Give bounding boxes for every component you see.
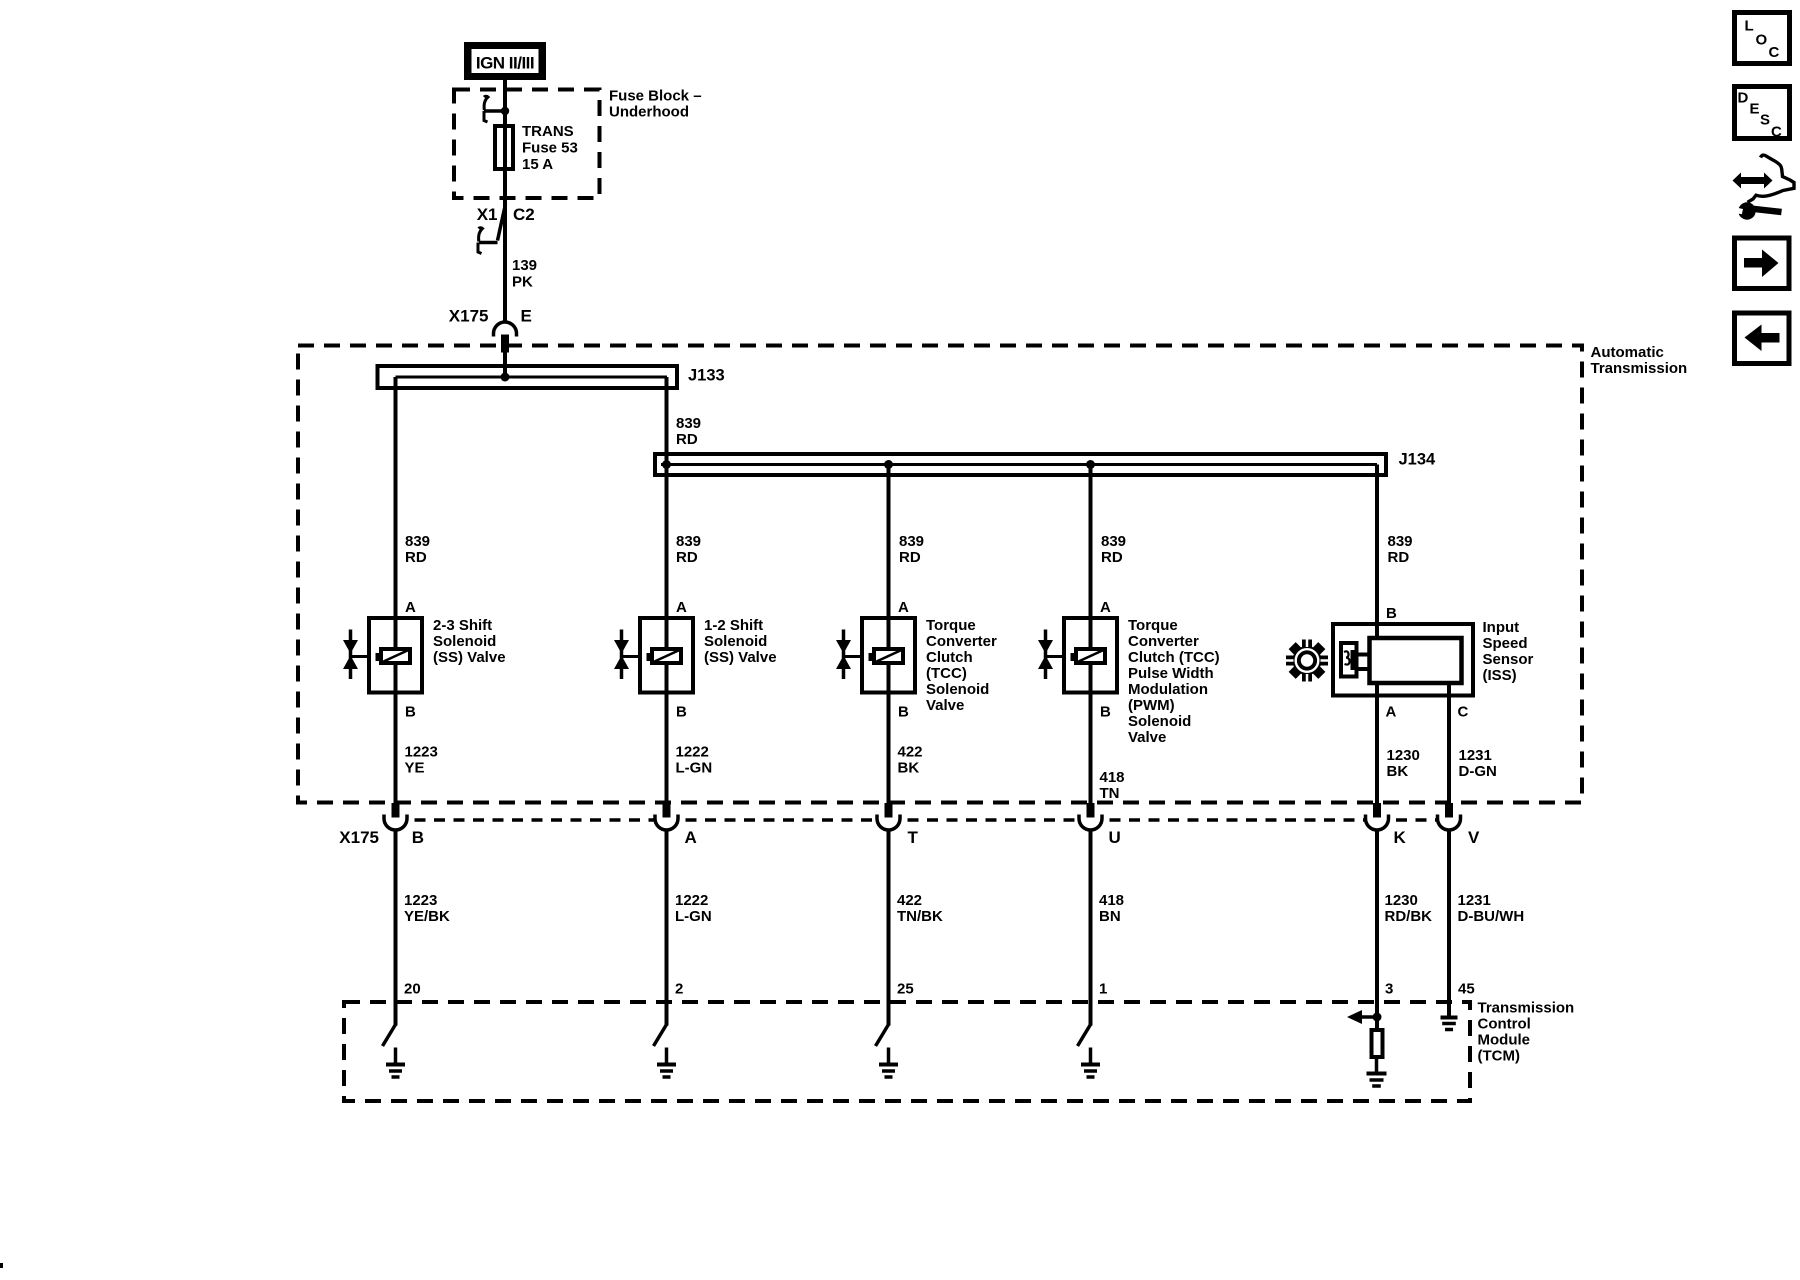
component label [704, 617, 777, 666]
wire 422 TN/BK: X175 T to TCM [889, 830, 943, 1026]
valve symbol [1038, 630, 1065, 680]
connector X1 C2 [477, 204, 535, 254]
svg-text:Module: Module [1478, 1032, 1531, 1049]
resistor in TCM [1372, 1030, 1383, 1057]
svg-text:Clutch: Clutch [926, 649, 973, 666]
svg-text:U: U [1109, 828, 1121, 847]
svg-text:2: 2 [675, 981, 683, 998]
svg-text:Solenoid: Solenoid [704, 633, 767, 650]
wire 422 BK: solenoid pin B to X175 [889, 665, 923, 805]
svg-text:TRANS: TRANS [522, 123, 574, 140]
connector X175 pin T [877, 803, 919, 847]
svg-text:S: S [1760, 112, 1770, 129]
connector X175 pin B [384, 803, 424, 847]
wire: IGN II/III to fuse [503, 80, 507, 126]
TCM internal ground lead pin 20 [383, 1025, 396, 1047]
svg-text:O: O [1756, 32, 1768, 49]
svg-text:B: B [676, 704, 687, 721]
svg-text:Pulse Width: Pulse Width [1128, 665, 1214, 682]
wire 839 RD: J133 to J134 and 1-2 shift solenoid [667, 377, 702, 649]
svg-text:(SS) Valve: (SS) Valve [433, 649, 506, 666]
svg-text:PK: PK [512, 274, 533, 291]
svg-text:D-BU/WH: D-BU/WH [1458, 908, 1525, 925]
wire 1223 YE: solenoid pin B to X175 [396, 665, 438, 805]
svg-text:J133: J133 [688, 367, 725, 385]
svg-text:TN/BK: TN/BK [897, 908, 943, 925]
page speck bottom left [0, 1263, 3, 1268]
TCM internal ground lead pin 25 [876, 1025, 889, 1047]
svg-text:1231: 1231 [1458, 892, 1491, 909]
svg-text:Transmission: Transmission [1478, 1000, 1575, 1017]
icon: DESC box [1735, 87, 1790, 141]
svg-text:Input: Input [1483, 619, 1520, 636]
svg-text:Underhood: Underhood [609, 104, 689, 121]
svg-text:Solenoid: Solenoid [1128, 713, 1191, 730]
wire 1222 L-GN: X175 A to TCM [667, 830, 712, 1026]
icon: harness routing / tools [1729, 155, 1794, 220]
svg-text:422: 422 [898, 744, 923, 761]
svg-text:BK: BK [898, 760, 920, 777]
svg-text:Transmission: Transmission [1591, 360, 1688, 377]
label: Input Speed Sensor (ISS) [1483, 619, 1534, 684]
svg-text:TN: TN [1100, 785, 1120, 802]
label: Transmission Control Module (TCM) [1478, 1000, 1575, 1065]
svg-text:RD/BK: RD/BK [1385, 908, 1433, 925]
svg-text:Converter: Converter [926, 633, 997, 650]
svg-text:1223: 1223 [405, 744, 438, 761]
svg-text:20: 20 [404, 981, 421, 998]
terminal clip at fuse input [484, 96, 509, 122]
connector X175 pin K [1366, 803, 1407, 847]
wire 839 RD: J133 to 2-3 shift solenoid [396, 377, 431, 649]
splice bus J133 [378, 366, 725, 388]
wire 1223 YE/BK: X175 B to TCM [396, 830, 451, 1026]
junction on J133 [501, 373, 510, 382]
component label [1128, 617, 1220, 746]
wire 1230 RD/BK: X175 K to TCM pin 3 [1377, 830, 1432, 1029]
svg-text:A: A [898, 599, 909, 616]
svg-text:E: E [521, 307, 532, 326]
connector X175 pin A [655, 803, 697, 847]
svg-text:418: 418 [1100, 769, 1125, 786]
label: Automatic Transmission [1591, 344, 1688, 377]
svg-text:839: 839 [676, 415, 701, 432]
Automatic Transmission dashed box [298, 346, 1582, 803]
svg-text:Torque: Torque [926, 617, 976, 634]
svg-text:T: T [908, 828, 919, 847]
svg-text:422: 422 [897, 892, 922, 909]
svg-text:C: C [1769, 44, 1780, 61]
svg-text:Control: Control [1478, 1016, 1531, 1033]
svg-text:839: 839 [1101, 533, 1126, 550]
svg-text:139: 139 [512, 257, 537, 274]
wire 418 TN: solenoid pin B to X175 [1091, 665, 1125, 805]
svg-text:RD: RD [899, 549, 921, 566]
gear icon [1285, 639, 1329, 683]
svg-text:A: A [1100, 599, 1111, 616]
svg-text:Solenoid: Solenoid [433, 633, 496, 650]
svg-text:A: A [1386, 704, 1397, 721]
splice bus J134 [655, 451, 1436, 476]
ground at TCM pin 45 [1441, 1018, 1458, 1030]
svg-text:839: 839 [405, 533, 430, 550]
svg-text:L: L [1745, 18, 1754, 35]
svg-text:B: B [898, 704, 909, 721]
icon: LOC box [1735, 13, 1790, 64]
wire: fuse to connector X1/C2 [503, 169, 507, 218]
svg-text:1223: 1223 [404, 892, 437, 909]
TCM internal ground lead pin 2 [654, 1025, 667, 1047]
svg-text:RD: RD [1101, 549, 1123, 566]
svg-text:839: 839 [899, 533, 924, 550]
svg-text:J134: J134 [1399, 451, 1437, 469]
svg-text:(TCC): (TCC) [926, 665, 967, 682]
svg-text:25: 25 [897, 981, 914, 998]
svg-text:(SS) Valve: (SS) Valve [704, 649, 777, 666]
svg-text:1230: 1230 [1387, 747, 1420, 764]
svg-text:X1: X1 [477, 205, 498, 224]
valve symbol [836, 630, 863, 680]
Transmission Control Module dashed box [344, 1002, 1470, 1101]
svg-text:BK: BK [1387, 763, 1409, 780]
wire 839 RD: J134 to TCC solenoid [889, 465, 925, 650]
svg-text:BN: BN [1099, 908, 1121, 925]
component label [926, 617, 997, 714]
svg-text:IGN II/III: IGN II/III [476, 54, 534, 73]
svg-text:(ISS): (ISS) [1483, 667, 1517, 684]
connector X175 pin U [1079, 803, 1121, 847]
svg-text:A: A [405, 599, 416, 616]
svg-text:D: D [1738, 90, 1749, 107]
svg-text:Valve: Valve [926, 697, 964, 714]
svg-text:K: K [1394, 828, 1407, 847]
fuse TRANS Fuse 53 15 A [495, 123, 578, 173]
connector X175 pin V [1438, 803, 1481, 847]
svg-text:3: 3 [1385, 981, 1393, 998]
solenoid: 1-2 shift SS valve [640, 618, 693, 693]
ground [1081, 1048, 1100, 1078]
wire 1230 BK: ISS pin A to X175 [1377, 683, 1420, 805]
junction at TCM pin 3 [1373, 1013, 1382, 1022]
svg-text:B: B [412, 828, 424, 847]
svg-text:418: 418 [1099, 892, 1124, 909]
valve symbol [343, 630, 370, 680]
valve symbol [614, 630, 641, 680]
TCM internal ground lead pin 1 [1078, 1025, 1091, 1047]
component label [433, 617, 506, 666]
solenoid: TCC PWM solenoid valve [1064, 618, 1117, 693]
icon: previous page arrow [1735, 313, 1790, 364]
svg-text:Modulation: Modulation [1128, 681, 1208, 698]
svg-text:YE/BK: YE/BK [404, 908, 450, 925]
wire: X175 E to splice J133 [503, 350, 507, 377]
svg-text:C: C [1458, 704, 1469, 721]
svg-text:839: 839 [1388, 533, 1413, 550]
wire 1222 L-GN: solenoid pin B to X175 [667, 665, 713, 805]
svg-text:Clutch (TCC): Clutch (TCC) [1128, 649, 1220, 666]
svg-text:839: 839 [676, 533, 701, 550]
input speed sensor ISS [1333, 624, 1473, 696]
svg-text:1-2 Shift: 1-2 Shift [704, 617, 763, 634]
label: Fuse Block - Underhood [609, 88, 702, 121]
svg-text:Automatic: Automatic [1591, 344, 1664, 361]
svg-text:(TCM): (TCM) [1478, 1048, 1520, 1065]
svg-text:YE: YE [405, 760, 425, 777]
svg-text:B: B [1100, 704, 1111, 721]
svg-text:X175: X175 [449, 307, 489, 326]
svg-text:(PWM): (PWM) [1128, 697, 1175, 714]
svg-text:C2: C2 [513, 205, 535, 224]
wire 839 RD: J134 to input speed sensor pin B [1377, 465, 1413, 641]
svg-text:RD: RD [405, 549, 427, 566]
connector X175 dashed line [415, 818, 656, 822]
svg-text:45: 45 [1458, 981, 1475, 998]
svg-text:Sensor: Sensor [1483, 651, 1534, 668]
wire 418 BN: X175 U to TCM [1091, 830, 1125, 1026]
wire 1231 D-GN: ISS pin C to X175 [1449, 683, 1497, 805]
svg-text:RD: RD [676, 549, 698, 566]
wire 139 PK [505, 218, 537, 321]
svg-text:1230: 1230 [1385, 892, 1418, 909]
svg-text:Converter: Converter [1128, 633, 1199, 650]
solenoid: 2-3 shift SS valve [369, 618, 422, 693]
svg-text:Valve: Valve [1128, 729, 1166, 746]
junction dots on J134 [662, 460, 671, 469]
solenoid: TCC solenoid valve [862, 618, 915, 693]
svg-text:A: A [676, 599, 687, 616]
svg-text:E: E [1750, 101, 1760, 118]
svg-text:Speed: Speed [1483, 635, 1528, 652]
wire 839 RD: J134 to TCC PWM solenoid [1091, 465, 1127, 650]
svg-text:Fuse Block –: Fuse Block – [609, 88, 702, 105]
svg-text:Torque: Torque [1128, 617, 1178, 634]
wire 1231 D-BU/WH: X175 V to TCM pin 45 [1449, 830, 1524, 1017]
ground [657, 1048, 676, 1078]
ground below resistor [1367, 1057, 1387, 1086]
svg-text:X175: X175 [339, 828, 379, 847]
svg-text:B: B [1386, 605, 1397, 622]
svg-text:1222: 1222 [676, 744, 709, 761]
signal arrow to other page (TCM pin 3) [1347, 1010, 1377, 1024]
svg-text:1231: 1231 [1459, 747, 1492, 764]
svg-text:2-3 Shift: 2-3 Shift [433, 617, 492, 634]
svg-text:1: 1 [1099, 981, 1107, 998]
svg-text:1222: 1222 [675, 892, 708, 909]
power feed IGN II/III [464, 42, 546, 80]
icon: next page arrow [1735, 238, 1790, 289]
svg-text:A: A [685, 828, 697, 847]
svg-text:B: B [405, 704, 416, 721]
svg-text:V: V [1468, 828, 1480, 847]
svg-text:L-GN: L-GN [676, 760, 713, 777]
svg-text:C: C [1771, 124, 1782, 141]
svg-text:L-GN: L-GN [675, 908, 712, 925]
svg-text:Fuse 53: Fuse 53 [522, 140, 578, 157]
svg-text:RD: RD [1388, 549, 1410, 566]
svg-text:D-GN: D-GN [1459, 763, 1497, 780]
svg-text:Solenoid: Solenoid [926, 681, 989, 698]
fuse block underhood dashed box [454, 90, 600, 199]
ground [386, 1048, 405, 1078]
svg-text:RD: RD [676, 431, 698, 448]
svg-text:15 A: 15 A [522, 156, 553, 173]
ground [879, 1048, 898, 1078]
inline connector X175 pin E [449, 307, 532, 353]
